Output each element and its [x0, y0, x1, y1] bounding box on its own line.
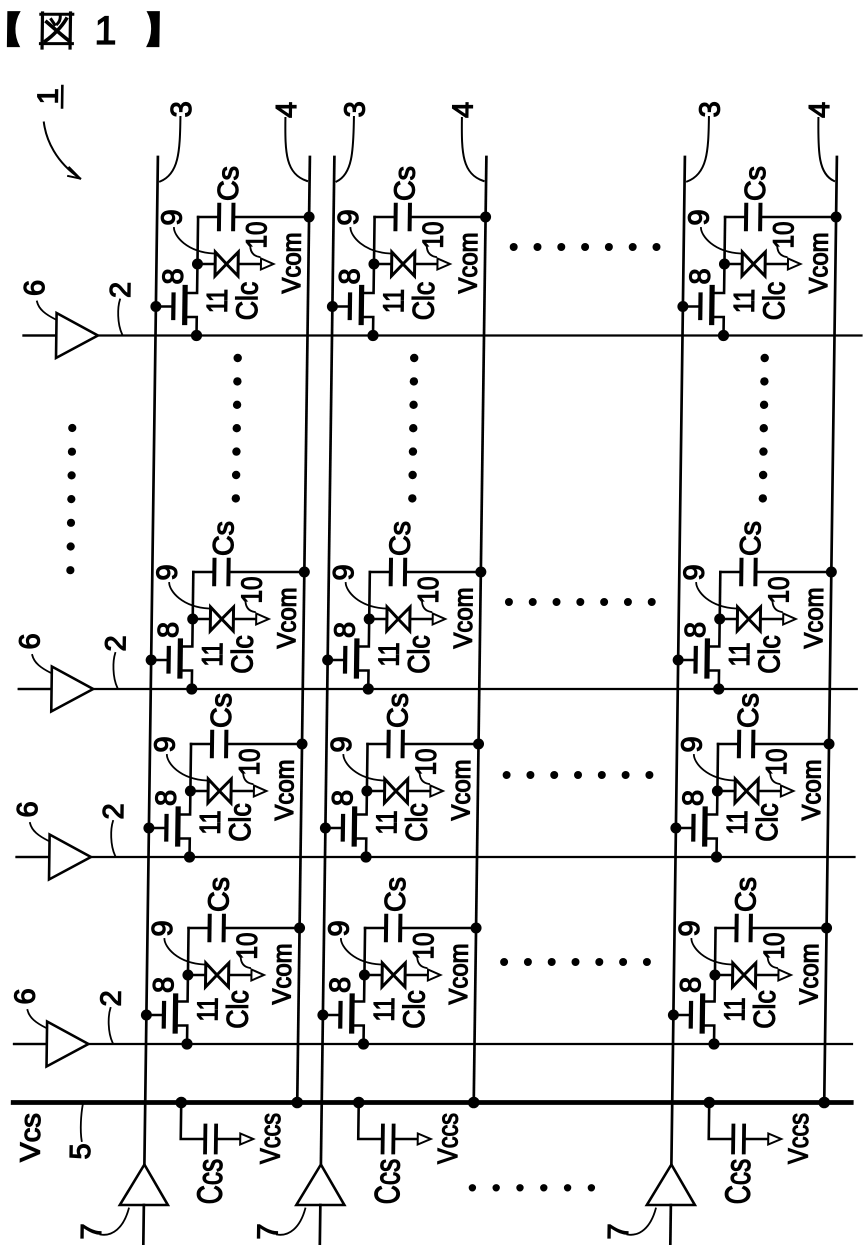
- svg-text:11: 11: [197, 643, 229, 667]
- pixel riser wire r4c2: [363, 928, 366, 975]
- pixel riser wire r2c1: [191, 572, 194, 619]
- capacitor Cs r1c1: [217, 205, 221, 229]
- capacitor Cs r2c1: [212, 560, 216, 584]
- svg-text:8: 8: [151, 790, 183, 806]
- capacitor Cs r2c2: [389, 560, 393, 584]
- TFT 8 channel bar r1c3: [709, 288, 715, 323]
- leader from label 10 r3c1: [243, 772, 253, 784]
- wire node to Clc r3c1: [190, 790, 208, 793]
- leader arrow from label 1: [43, 123, 81, 179]
- wire gate stub r4c1: [146, 1014, 164, 1017]
- leader from label 9 r4c3: [691, 939, 731, 965]
- TFT 8 drain lead r4c2: [352, 975, 364, 1002]
- svg-text:3: 3: [166, 101, 198, 117]
- svg-text:11: 11: [371, 811, 403, 835]
- node gate tap r2c1: [146, 655, 157, 666]
- leader from label 6 row 2: [32, 655, 51, 673]
- svg-text:8: 8: [148, 977, 180, 993]
- wire gate stub r1c1: [156, 305, 174, 308]
- ellipsis dots column 3 (rows continue): [759, 354, 769, 503]
- svg-text:6: 6: [12, 801, 44, 817]
- svg-text:Cs: Cs: [730, 877, 762, 912]
- leader from label 9 r3c3: [694, 755, 734, 781]
- figure title bracket left: [7, 12, 19, 47]
- junction on line 4 r4c3: [821, 923, 832, 934]
- junction on line 4 r3c1: [296, 739, 307, 750]
- TFT 8 gate bar r3c2: [341, 816, 346, 840]
- ellipsis dots row 3 (columns continue): [503, 771, 654, 779]
- Vcom terminal arrow 10 r1c1: [261, 259, 274, 270]
- svg-text:9: 9: [679, 564, 711, 580]
- Vcom terminal arrow 10 r4c3: [778, 970, 791, 981]
- gate driver amplifier 6 (row 1): [56, 313, 98, 358]
- Vcom terminal arrow 10 r3c1: [254, 786, 267, 797]
- svg-text:4: 4: [271, 102, 303, 118]
- TFT 8 channel bar r4c2: [349, 996, 355, 1031]
- svg-text:8: 8: [680, 622, 712, 638]
- wire node to Clc r4c1: [188, 974, 206, 977]
- TFT 8 gate bar r3c3: [691, 816, 696, 840]
- TFT 8 gate bar r4c3: [689, 1003, 694, 1027]
- leader from label 7 column 1: [100, 1209, 128, 1235]
- ellipsis dots row 1 (columns continue): [510, 243, 661, 251]
- Cs/common line 4 (column 3) wire: [824, 157, 837, 1103]
- LC capacitor Clc 11 r3c1: [208, 779, 231, 803]
- svg-text:Cs: Cs: [384, 521, 416, 556]
- TFT 8 source lead r1c1: [185, 317, 197, 336]
- TFT 8 source lead r3c3: [705, 839, 717, 858]
- ellipsis dots bottom (Cs drivers continue): [469, 1184, 595, 1191]
- leader from label 4 column 1: [285, 118, 308, 181]
- TFT 8 source lead r4c2: [352, 1026, 364, 1045]
- wire gate stub r2c3: [678, 659, 696, 662]
- svg-text:Vcom: Vcom: [269, 760, 300, 821]
- svg-text:Vccs: Vccs: [254, 1113, 286, 1164]
- underline of label 1: [61, 86, 64, 108]
- svg-text:10: 10: [759, 933, 791, 960]
- svg-text:3: 3: [694, 101, 726, 117]
- ellipsis dots left margin (rows continue): [66, 424, 76, 574]
- svg-text:9: 9: [147, 920, 179, 936]
- leader from label 9 r4c1: [164, 939, 204, 965]
- ellipsis dots row 4 (columns continue): [500, 958, 651, 966]
- TFT 8 source lead r3c1: [178, 839, 190, 858]
- TFT 8 drain lead r1c3: [712, 264, 724, 293]
- svg-text:9: 9: [333, 209, 365, 225]
- leader from label 9 r2c2: [345, 583, 385, 609]
- TFT 8 drain lead r4c3: [703, 975, 715, 1002]
- wire Ccs to Vccs arrow 1: [218, 1138, 240, 1141]
- storage cap wire right r4c2: [402, 927, 476, 930]
- wire gate stub r3c1: [149, 827, 167, 830]
- wire Clc to Vcom arrow r4c2: [406, 974, 428, 977]
- gate driver amp 6 (row 2) input wire: [19, 688, 52, 690]
- wire Clc to Vcom arrow r4c1: [229, 974, 251, 977]
- wire node to Clc r4c2: [364, 974, 382, 977]
- svg-text:9: 9: [156, 209, 188, 225]
- wire node to Clc r2c3: [720, 618, 738, 621]
- TFT 8 channel bar r3c2: [352, 809, 358, 844]
- capacitor Ccs 1: [203, 1126, 207, 1153]
- wire Ccs tap 1: [181, 1103, 204, 1140]
- svg-text:8: 8: [685, 268, 717, 284]
- TFT 8 source lead r2c2: [356, 671, 368, 690]
- storage cap wire right r1c3: [762, 216, 836, 219]
- Vcom terminal arrow 10 r2c2: [433, 614, 446, 625]
- svg-text:Cs: Cs: [735, 521, 767, 556]
- capacitor Cs r3c1: [210, 732, 214, 756]
- wire node to Clc r1c1: [197, 263, 215, 266]
- node gate tap r2c3: [673, 655, 684, 666]
- Vcom terminal arrow 10 r4c1: [251, 970, 264, 981]
- svg-text:Clc: Clc: [226, 635, 260, 674]
- storage cap wire right r4c1: [226, 927, 300, 930]
- wire Clc to Vcom arrow r2c1: [234, 618, 256, 621]
- wire Ccs to Vccs arrow 2: [395, 1138, 417, 1141]
- LC capacitor Clc 11 r4c1: [205, 963, 228, 987]
- TFT 8 drain lead r3c1: [178, 791, 190, 815]
- Cs driver amplifier 7 (column 1): [120, 1165, 169, 1206]
- svg-text:Cs: Cs: [740, 166, 772, 201]
- junction on line 4 r4c1: [294, 923, 305, 934]
- Vcom terminal arrow 10 r1c2: [437, 259, 450, 270]
- svg-text:Vcom: Vcom: [448, 588, 479, 649]
- junction on line 4 r4c2: [470, 923, 481, 934]
- TFT 8 channel bar r4c3: [700, 996, 706, 1031]
- svg-text:10: 10: [408, 933, 440, 960]
- svg-text:Clc: Clc: [758, 282, 792, 321]
- leader from label 10 r1c2: [427, 245, 437, 257]
- svg-text:Clc: Clc: [224, 803, 258, 842]
- storage cap wire left r1c2: [375, 216, 395, 219]
- svg-text:7: 7: [76, 1223, 108, 1239]
- Vcom terminal arrow 10 r3c2: [430, 786, 443, 797]
- LC capacitor Clc 11 r3c2: [384, 779, 407, 803]
- storage cap wire right r4c3: [753, 927, 827, 930]
- leader from label 10 r1c1: [250, 245, 260, 257]
- capacitor Cs r3c3: [737, 732, 741, 756]
- junction on gate line r1c3: [718, 330, 729, 341]
- svg-text:3: 3: [339, 101, 371, 117]
- pixel node 9 junction r1c3: [719, 259, 730, 270]
- svg-text:Ccs: Ccs: [190, 1159, 230, 1205]
- svg-text:11: 11: [202, 289, 234, 313]
- svg-text:10: 10: [236, 577, 268, 604]
- leader from label 9 r2c3: [696, 583, 736, 609]
- pixel node 9 junction r2c2: [364, 614, 375, 625]
- leader from label 2 row 1: [118, 300, 123, 335]
- pixel node 9 junction r4c3: [709, 970, 720, 981]
- pixel riser wire r3c1: [189, 744, 192, 791]
- storage cap wire right r2c1: [230, 571, 304, 574]
- svg-text:1: 1: [94, 9, 117, 53]
- leader from label 2 row 3: [111, 821, 116, 856]
- svg-text:Cs: Cs: [213, 166, 245, 201]
- LC capacitor Clc 11 r2c1: [210, 607, 233, 631]
- TFT 8 channel bar r2c1: [177, 641, 183, 676]
- TFT 8 channel bar r1c1: [182, 288, 188, 323]
- svg-text:7: 7: [603, 1223, 635, 1239]
- wire gate stub r3c2: [325, 827, 343, 830]
- wire gate stub r1c2: [332, 305, 350, 308]
- junction on gate line r4c3: [708, 1038, 719, 1049]
- svg-text:5: 5: [65, 1143, 97, 1159]
- junction on gate line r3c3: [711, 851, 722, 862]
- junction on gate line r3c2: [360, 851, 371, 862]
- junction on line 4 r1c1: [304, 212, 315, 223]
- wire Clc to Vcom arrow r2c2: [411, 618, 433, 621]
- svg-text:11: 11: [719, 998, 751, 1022]
- Vcom terminal arrow 10 r4c2: [428, 970, 441, 981]
- gate line 2 (row 3) wire: [17, 856, 855, 858]
- TFT 8 source lead r4c3: [702, 1026, 714, 1045]
- amp 7 output wire (column 1): [142, 1205, 145, 1245]
- leader from label 10 r4c2: [417, 956, 427, 968]
- svg-text:Vcom: Vcom: [445, 760, 476, 821]
- LC capacitor Clc 11 r4c2: [382, 963, 405, 987]
- wire gate stub r4c3: [673, 1014, 691, 1017]
- TFT 8 source lead r1c2: [361, 317, 373, 336]
- pixel riser wire r4c3: [714, 928, 717, 975]
- source line 3 (column 1) wire: [144, 157, 158, 1165]
- svg-text:Clc: Clc: [401, 803, 435, 842]
- leader from label 9 r4c2: [341, 939, 381, 965]
- svg-text:Ccs: Ccs: [718, 1159, 758, 1205]
- storage cap wire left r2c2: [370, 571, 390, 574]
- TFT 8 drain lead r2c2: [357, 619, 369, 647]
- leader from label 9 r1c1: [174, 228, 214, 254]
- svg-text:Clc: Clc: [408, 282, 442, 321]
- TFT 8 channel bar r1c2: [359, 288, 365, 323]
- wire Clc to Vcom arrow r1c1: [239, 263, 261, 266]
- wire Clc to Vcom arrow r1c2: [415, 263, 437, 266]
- svg-text:11: 11: [192, 998, 224, 1022]
- svg-text:10: 10: [761, 749, 793, 776]
- junction line 4 to Vcs bus (column 3): [818, 1097, 830, 1109]
- wire Clc to Vcom arrow r3c1: [232, 790, 254, 793]
- svg-text:8: 8: [329, 622, 361, 638]
- svg-text:8: 8: [158, 268, 190, 284]
- junction on line 4 r3c2: [473, 739, 484, 750]
- junction on gate line r4c1: [181, 1038, 192, 1049]
- TFT 8 channel bar r2c3: [704, 641, 710, 676]
- pixel riser wire r4c1: [187, 928, 190, 975]
- wire node to Clc r1c2: [374, 263, 392, 266]
- svg-text:10: 10: [418, 222, 450, 249]
- svg-text:8: 8: [675, 977, 707, 993]
- junction on line 4 r1c2: [480, 212, 491, 223]
- storage cap wire right r2c2: [407, 571, 481, 574]
- storage cap wire right r3c3: [755, 743, 829, 746]
- TFT 8 channel bar r2c2: [354, 641, 360, 676]
- leader from label 10 r3c3: [770, 772, 780, 784]
- LC capacitor Clc 11 r1c3: [742, 252, 765, 276]
- svg-text:Vccs: Vccs: [432, 1113, 464, 1164]
- wire Clc to Vcom arrow r3c3: [759, 790, 781, 793]
- junction Ccs tap 1: [175, 1097, 187, 1109]
- amp 7 output wire (column 3): [669, 1205, 672, 1245]
- gate driver amplifier 6 (row 4): [47, 1022, 89, 1067]
- storage cap wire left r3c3: [718, 743, 738, 746]
- pixel riser wire r1c1: [196, 217, 199, 264]
- pixel node 9 junction r4c1: [182, 970, 193, 981]
- svg-text:Cs: Cs: [733, 693, 765, 728]
- leader from label 10 r2c2: [422, 600, 432, 612]
- svg-text:8: 8: [153, 622, 185, 638]
- junction on line 4 r3c3: [823, 739, 834, 750]
- pixel riser wire r2c2: [368, 572, 371, 619]
- gate driver amp 6 (row 4) input wire: [14, 1043, 47, 1045]
- leader from label 4 column 3: [818, 118, 835, 181]
- svg-text:10: 10: [413, 577, 445, 604]
- pixel riser wire r1c3: [723, 217, 726, 264]
- TFT 8 gate bar r1c3: [698, 295, 703, 319]
- storage cap wire left r4c3: [716, 927, 736, 930]
- svg-text:1: 1: [33, 88, 65, 104]
- wire Ccs tap 3: [709, 1103, 732, 1140]
- leader from label 9 r1c3: [701, 228, 741, 254]
- svg-text:8: 8: [327, 790, 359, 806]
- TFT 8 drain lead r1c2: [362, 264, 374, 293]
- svg-text:Vcom: Vcom: [276, 233, 307, 294]
- capacitor Cs r4c3: [734, 916, 738, 940]
- pixel node 9 junction r1c1: [192, 259, 203, 270]
- svg-text:8: 8: [334, 268, 366, 284]
- gate line 2 (row 2) wire: [19, 688, 857, 690]
- svg-text:Vcom: Vcom: [452, 233, 483, 294]
- TFT 8 drain lead r4c1: [176, 975, 188, 1002]
- storage cap wire left r1c1: [198, 216, 218, 219]
- storage cap wire left r4c1: [189, 927, 209, 930]
- gate driver amplifier 6 (row 2): [51, 667, 93, 712]
- svg-text:2: 2: [105, 282, 137, 298]
- pixel node 9 junction r3c1: [185, 786, 196, 797]
- svg-text:6: 6: [14, 633, 46, 649]
- svg-text:10: 10: [768, 222, 800, 249]
- capacitor Cs r4c2: [384, 916, 388, 940]
- TFT 8 gate bar r3c1: [164, 816, 169, 840]
- capacitor Ccs 2: [381, 1126, 385, 1153]
- LC capacitor Clc 11 r1c1: [215, 252, 238, 276]
- wire node to Clc r1c3: [724, 263, 742, 266]
- svg-text:Clc: Clc: [231, 282, 265, 321]
- wire Ccs to Vccs arrow 3: [746, 1138, 768, 1141]
- svg-text:6: 6: [19, 280, 51, 296]
- leader from label 7 column 2: [277, 1209, 305, 1235]
- Vcom terminal arrow 10 r3c3: [781, 786, 794, 797]
- gate driver amp 6 (row 3) input wire: [17, 856, 50, 858]
- wire gate stub r4c2: [323, 1014, 341, 1017]
- junction on line 4 r2c3: [826, 567, 837, 578]
- TFT 8 source lead r4c1: [175, 1026, 187, 1045]
- svg-text:9: 9: [328, 564, 360, 580]
- junction on line 4 r2c1: [299, 567, 310, 578]
- Vcom terminal arrow 10 r1c3: [788, 259, 801, 270]
- LC capacitor Clc 11 r1c2: [392, 252, 415, 276]
- svg-text:9: 9: [674, 920, 706, 936]
- wire node to Clc r3c3: [717, 790, 735, 793]
- LC capacitor Clc 11 r2c3: [737, 607, 760, 631]
- leader from label 10 r2c1: [245, 600, 255, 612]
- svg-text:10: 10: [232, 933, 264, 960]
- Cs driver amplifier 7 (column 3): [647, 1165, 696, 1206]
- svg-text:10: 10: [234, 749, 266, 776]
- node gate tap r3c3: [670, 823, 681, 834]
- TFT 8 channel bar r4c1: [173, 996, 179, 1031]
- Cs/common line 4 (column 1) wire: [297, 157, 310, 1103]
- storage cap wire right r2c3: [757, 571, 831, 574]
- Vccs terminal arrow 2: [418, 1134, 431, 1145]
- svg-text:Vcom: Vcom: [796, 760, 827, 821]
- node gate tap r1c2: [327, 301, 338, 312]
- svg-text:Cs: Cs: [208, 521, 240, 556]
- svg-text:Cs: Cs: [382, 693, 414, 728]
- svg-text:Clc: Clc: [753, 635, 787, 674]
- pixel node 9 junction r1c2: [368, 259, 379, 270]
- svg-text:Clc: Clc: [749, 990, 783, 1029]
- capacitor Cs r1c2: [393, 205, 397, 229]
- wire node to Clc r2c2: [369, 618, 387, 621]
- svg-text:2: 2: [100, 635, 132, 651]
- junction Ccs tap 3: [703, 1097, 715, 1109]
- leader from label 10 r4c1: [241, 956, 251, 968]
- svg-text:9: 9: [323, 920, 355, 936]
- svg-text:Vcs: Vcs: [15, 1113, 47, 1162]
- TFT 8 gate bar r2c1: [166, 648, 171, 672]
- capacitor Cs r3c2: [386, 732, 390, 756]
- svg-text:9: 9: [676, 736, 708, 752]
- pixel node 9 junction r4c2: [359, 970, 370, 981]
- leader from label 10 r2c3: [772, 600, 782, 612]
- wire gate stub r2c1: [151, 659, 169, 662]
- figure title kanji zu (figure): [40, 13, 72, 48]
- TFT 8 gate bar r2c2: [343, 648, 348, 672]
- storage cap wire left r2c3: [720, 571, 740, 574]
- TFT 8 channel bar r3c3: [702, 809, 708, 844]
- svg-text:6: 6: [9, 988, 41, 1004]
- TFT 8 source lead r2c3: [707, 671, 719, 690]
- leader from label 6 row 3: [30, 823, 49, 841]
- gate line 2 (row 1) wire: [24, 334, 862, 336]
- svg-text:10: 10: [411, 749, 443, 776]
- svg-text:Vcom: Vcom: [266, 944, 297, 1005]
- node gate tap r4c3: [668, 1010, 679, 1021]
- wire gate stub r1c3: [683, 305, 701, 308]
- svg-text:Vccs: Vccs: [782, 1113, 814, 1164]
- TFT 8 gate bar r4c2: [338, 1003, 343, 1027]
- source line 3 (column 3) wire: [671, 157, 685, 1165]
- ellipsis dots row 2 (columns continue): [505, 598, 656, 606]
- leader from label 10 r3c2: [419, 772, 429, 784]
- svg-text:Clc: Clc: [403, 635, 437, 674]
- svg-text:Vcom: Vcom: [798, 588, 829, 649]
- Vccs terminal arrow 1: [240, 1134, 253, 1145]
- leader from label 9 r2c1: [169, 583, 209, 609]
- storage cap wire left r3c1: [191, 743, 211, 746]
- node gate tap r1c1: [150, 301, 161, 312]
- svg-text:Clc: Clc: [222, 990, 256, 1029]
- figure title bracket right: [147, 12, 159, 47]
- svg-text:Cs: Cs: [203, 877, 235, 912]
- leader from label 3 column 1: [160, 117, 180, 182]
- Vccs terminal arrow 3: [768, 1134, 781, 1145]
- TFT 8 drain lead r1c1: [185, 264, 197, 293]
- svg-text:Cs: Cs: [389, 166, 421, 201]
- storage cap wire left r4c2: [365, 927, 385, 930]
- svg-text:4: 4: [804, 102, 836, 118]
- wire Clc to Vcom arrow r2c3: [761, 618, 783, 621]
- capacitor Cs r2c3: [739, 560, 743, 584]
